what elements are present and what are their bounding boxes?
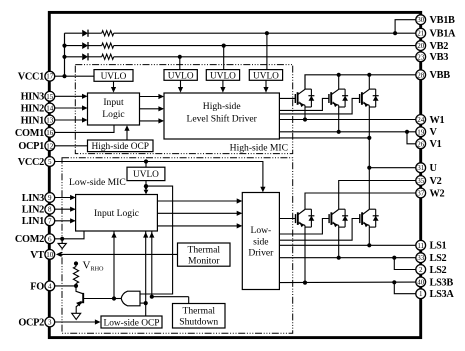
- junction VB1B/VB1A: [393, 31, 397, 35]
- wire LIN2 to Input Logic: [55, 208, 75, 210]
- pin 33 LS2: [416, 253, 447, 264]
- svg-text:Low-: Low-: [250, 225, 271, 236]
- wire HIN1 to Input Logic: [55, 119, 87, 121]
- pin 15 HIN3: [21, 91, 55, 102]
- svg-text:Driver: Driver: [248, 248, 274, 259]
- svg-text:12: 12: [46, 142, 54, 150]
- wire U line to pin: [369, 167, 416, 169]
- wire COM2 to Input Logic: [55, 231, 84, 239]
- junction thermal shutdown tee: [150, 295, 154, 299]
- svg-text:UVLO: UVLO: [210, 71, 236, 81]
- pin 26 V1: [416, 139, 442, 150]
- svg-text:VT: VT: [30, 250, 44, 261]
- wire Thermal Shutdown riser: [188, 297, 190, 304]
- wire LS3B sense line: [279, 281, 415, 284]
- block Thermal Monitor: [178, 243, 231, 266]
- wire gate drive Q1L: [279, 218, 295, 220]
- wire V2 line: [339, 181, 416, 210]
- transistor Q_FO (fault output): [76, 286, 114, 313]
- pin 24 W1: [416, 115, 445, 126]
- wire V sense line: [279, 131, 415, 133]
- junction LS3 branch: [392, 280, 396, 284]
- wire UVLO3 to driver: [222, 80, 224, 91]
- wire LIN1 to Input Logic: [55, 220, 75, 222]
- wire VB1A line to pin: [114, 32, 416, 34]
- wire VCC2 supply line: [55, 162, 263, 192]
- pin 19 V: [416, 127, 438, 138]
- wire LS2 to second pin: [394, 258, 416, 270]
- wire VBB rail: [305, 75, 416, 90]
- wire LS1 sense line: [279, 244, 415, 246]
- svg-text:VB1A: VB1A: [430, 29, 457, 40]
- node V_RHO: [74, 261, 78, 265]
- svg-text:37: 37: [417, 190, 425, 198]
- junction VB2/UVLO3 feed: [222, 44, 226, 48]
- svg-text:26: 26: [417, 140, 425, 148]
- wire Q1H emitter to W1: [304, 105, 306, 119]
- wire OCP2 to Low-side OCP: [55, 321, 96, 323]
- wire VCC2 into UVLO5: [145, 162, 147, 168]
- pin 20 VB2: [416, 41, 448, 52]
- svg-text:Shutdown: Shutdown: [179, 317, 218, 328]
- wire gate output: [114, 298, 121, 300]
- junction gate output/Q_FO base: [112, 296, 116, 300]
- pin 21 VB1A: [416, 28, 456, 39]
- svg-text:LS3B: LS3B: [430, 277, 454, 288]
- wire gate drive Q3L: [279, 219, 359, 241]
- svg-text:9: 9: [48, 194, 52, 202]
- wire HIN2 to Input Logic: [55, 107, 87, 109]
- bootstrap resistor R_VB1A: [102, 31, 114, 36]
- wire Q2L emitter to LS2: [338, 225, 340, 257]
- ground symbol at COM2: [61, 239, 63, 244]
- svg-text:19: 19: [417, 128, 425, 136]
- IC package outline: [49, 12, 420, 337]
- pin 9 LIN3: [22, 193, 55, 204]
- block low-side Input Logic: [76, 195, 158, 232]
- junction VCC2/UVLO5: [144, 159, 148, 163]
- wire thermal fault to Input Logic: [151, 231, 153, 297]
- wire Input Logic to Level Shift Driver: [140, 96, 164, 98]
- pin 28 VBB: [416, 70, 450, 81]
- pin 35 V2: [416, 176, 442, 187]
- svg-text:OCP1: OCP1: [18, 141, 44, 152]
- svg-text:Logic: Logic: [102, 109, 124, 120]
- junction LS2/Q2L emitter: [337, 256, 341, 260]
- pin 37 W2: [416, 188, 445, 199]
- svg-text:8: 8: [48, 206, 52, 214]
- svg-text:V2: V2: [430, 176, 442, 187]
- wire Input Logic to Level Shift Driver: [140, 108, 164, 110]
- svg-text:UVLO: UVLO: [168, 71, 194, 81]
- pin 1 LS3A: [416, 289, 455, 300]
- wire VB1A to UVLO4: [266, 33, 268, 69]
- Low-side MIC boundary box: [62, 158, 293, 333]
- svg-text:30: 30: [417, 16, 425, 24]
- bootstrap diode D_VB1A: [82, 30, 88, 37]
- svg-text:VCC1: VCC1: [18, 72, 44, 83]
- svg-text:Low-side OCP: Low-side OCP: [104, 318, 160, 328]
- bootstrap diode D_VB2: [82, 42, 88, 49]
- wire VB3 row anode: [65, 56, 83, 58]
- svg-text:Input Logic: Input Logic: [94, 208, 139, 219]
- block Thermal Shutdown: [173, 304, 226, 329]
- svg-text:Thermal: Thermal: [188, 244, 221, 255]
- svg-text:U: U: [430, 163, 438, 174]
- junction VB3/UVLO2 feed: [178, 55, 182, 59]
- pin 11 LS1: [416, 240, 447, 251]
- svg-text:2: 2: [419, 266, 423, 274]
- wire COM1 to Input Logic: [55, 125, 114, 132]
- svg-text:17: 17: [46, 73, 54, 81]
- svg-text:VB2: VB2: [430, 41, 449, 52]
- wire Q1L emitter to LS3: [304, 225, 306, 282]
- block High-side Level Shift Driver: [164, 93, 279, 139]
- svg-text:LS1: LS1: [430, 241, 447, 252]
- bootstrap resistor R_VB2: [102, 43, 114, 48]
- svg-text:High-side MIC: High-side MIC: [230, 143, 288, 154]
- wire: [88, 56, 102, 58]
- wire W2 line: [305, 193, 416, 209]
- wire VCC1 to UVLO1: [55, 75, 94, 77]
- block UVLO3 (VB2 domain): [206, 70, 239, 82]
- svg-text:VCC2: VCC2: [18, 157, 44, 168]
- block UVLO4 (VB1 domain): [249, 70, 282, 82]
- junction bus/VB3 row: [62, 55, 66, 59]
- pin 5 VCC2: [18, 157, 55, 168]
- wire VB2 to UVLO3: [223, 46, 225, 70]
- svg-text:V: V: [430, 127, 438, 138]
- wire gate drive Q3H: [279, 98, 359, 114]
- wire OCP fault to gate: [140, 302, 146, 304]
- wire LS3 to LS3A pin: [394, 282, 416, 293]
- svg-text:VB1B: VB1B: [430, 15, 456, 26]
- block UVLO1 (VCC1 domain): [94, 70, 133, 82]
- wire UVLO5 to Input Logic: [145, 181, 147, 194]
- High-side MIC boundary box: [75, 65, 292, 154]
- bootstrap resistor R_VB3: [102, 54, 114, 59]
- svg-text:side: side: [253, 236, 268, 247]
- wire W1 sense line: [279, 119, 415, 121]
- wire UVLO5 fault to gate: [140, 186, 173, 294]
- wire Q3H collector: [368, 75, 370, 90]
- block high-side Input Logic: [88, 93, 140, 125]
- svg-text:W2: W2: [430, 188, 445, 199]
- svg-text:LS2: LS2: [430, 253, 447, 264]
- wire VB1B to VB1A link: [395, 20, 416, 34]
- svg-text:20: 20: [417, 42, 425, 50]
- pin 4 FO: [30, 281, 54, 292]
- pin 12 OCP1: [18, 141, 54, 152]
- svg-text:HIN2: HIN2: [21, 103, 45, 114]
- bootstrap diode D_VB3: [82, 53, 88, 60]
- wire HIN3 to Input Logic: [55, 95, 87, 97]
- wire Q2H collector: [338, 75, 340, 90]
- junction LS2 branch: [392, 256, 396, 260]
- svg-text:11: 11: [417, 242, 424, 250]
- block Low-side Driver: [242, 193, 279, 290]
- junction VB1A/UVLO4 feed: [265, 31, 269, 35]
- svg-text:Input: Input: [103, 97, 124, 108]
- wire VB2 line to pin: [114, 45, 416, 47]
- svg-text:UVLO: UVLO: [253, 71, 279, 81]
- svg-text:COM1: COM1: [15, 128, 44, 139]
- junction FO/resistor/collector: [74, 284, 78, 288]
- svg-text:FO: FO: [30, 281, 44, 292]
- pin 6 COM2: [15, 234, 55, 245]
- svg-text:10: 10: [46, 251, 54, 259]
- pin 14 HIN2: [21, 103, 55, 114]
- junction OCP fault: [144, 301, 148, 305]
- svg-text:Thermal: Thermal: [183, 306, 216, 317]
- pin 3 OCP2: [18, 317, 54, 328]
- block UVLO2 (VB3 domain): [164, 70, 197, 82]
- svg-text:31: 31: [417, 164, 425, 172]
- svg-text:14: 14: [46, 105, 54, 113]
- transistor Q1H (high-side IGBT, W phase): [295, 89, 314, 107]
- wire VB1A row anode: [65, 32, 83, 34]
- junction VCC1/bootstrap bus: [62, 74, 66, 78]
- svg-text:Monitor: Monitor: [188, 255, 220, 266]
- svg-text:HIN3: HIN3: [21, 92, 45, 103]
- svg-text:Low-side MIC: Low-side MIC: [69, 177, 126, 188]
- wire High-side OCP to Input Logic: [126, 126, 128, 140]
- wire Thermal Monitor to VT: [61, 253, 178, 255]
- pin 23 VB3: [416, 52, 448, 63]
- wire V_RHO to resistor: [75, 264, 77, 267]
- wire gate drive Q2L: [279, 219, 329, 235]
- transistor Q1L (low-side IGBT, W phase): [296, 209, 315, 227]
- wire VB3 to UVLO2: [179, 57, 181, 70]
- svg-text:LIN2: LIN2: [22, 205, 44, 216]
- svg-text:3: 3: [48, 319, 52, 327]
- pin 7 LIN1: [22, 216, 55, 227]
- svg-text:OCP2: OCP2: [18, 317, 44, 328]
- junction bus/VB2 row: [62, 44, 66, 48]
- svg-text:35: 35: [417, 177, 425, 185]
- junction LS3/Q1L emitter: [303, 281, 307, 285]
- svg-text:LIN3: LIN3: [22, 193, 44, 204]
- svg-text:VB3: VB3: [430, 52, 449, 63]
- wire LS2 sense line: [279, 257, 415, 259]
- wire UVLO1 to Input Logic: [113, 81, 115, 91]
- svg-text:LS3A: LS3A: [430, 289, 455, 300]
- block High-side OCP: [88, 140, 154, 152]
- svg-text:LS2: LS2: [430, 265, 447, 276]
- wire Input Logic to Low-side Driver: [157, 225, 241, 227]
- pin 17 VCC1: [18, 71, 55, 82]
- svg-text:HIN1: HIN1: [21, 115, 45, 126]
- svg-text:28: 28: [417, 71, 425, 79]
- transistor Q3H (high-side IGBT, U phase): [360, 89, 379, 107]
- bootstrap supply bus from VCC1: [64, 33, 66, 76]
- svg-text:4: 4: [48, 282, 52, 290]
- transistor Q3L (low-side IGBT, U phase): [360, 209, 379, 227]
- wire Input Logic to Low-side Driver: [157, 212, 241, 214]
- wire gate drive Q1H: [279, 97, 295, 99]
- wire FO pin line: [55, 285, 76, 287]
- junction LS1/Q3L emitter: [367, 243, 371, 247]
- svg-text:W1: W1: [430, 115, 445, 126]
- svg-text:24: 24: [417, 116, 425, 124]
- svg-text:13: 13: [46, 117, 54, 125]
- junction W1/Q1H emitter: [303, 117, 307, 121]
- svg-text:VBB: VBB: [430, 70, 451, 81]
- svg-text:COM2: COM2: [15, 234, 44, 245]
- svg-text:5: 5: [48, 158, 52, 166]
- junction V/Q2H emitter: [337, 130, 341, 134]
- wire Q3H emitter / U phase column: [368, 105, 370, 209]
- svg-text:15: 15: [46, 93, 54, 101]
- ground symbol at Q_FO emitter: [72, 313, 81, 319]
- junction U sense/phase column: [367, 136, 371, 140]
- svg-text:High-side OCP: High-side OCP: [91, 142, 149, 152]
- svg-text:16: 16: [46, 129, 54, 137]
- svg-text:LIN1: LIN1: [22, 216, 44, 227]
- wire OCP1 to High-side OCP: [55, 145, 88, 147]
- svg-text:1: 1: [419, 290, 423, 298]
- pin 8 LIN2: [22, 204, 55, 215]
- svg-text:Level Shift Driver: Level Shift Driver: [187, 114, 258, 125]
- pin 16 COM1: [15, 127, 55, 138]
- junction UVLO5 output: [144, 184, 148, 188]
- svg-text:V1: V1: [430, 139, 442, 150]
- wire: [88, 32, 102, 34]
- transistor Q2L (low-side IGBT, V phase): [329, 209, 348, 227]
- svg-text:40: 40: [417, 278, 425, 286]
- pin 40 LS3B: [416, 277, 454, 288]
- svg-text:23: 23: [417, 53, 425, 61]
- wire VB2 row anode: [65, 45, 83, 47]
- block UVLO5 (VCC2 domain): [127, 167, 165, 180]
- resistor R_FO pull-up: [73, 267, 78, 284]
- junction U line/phase column: [367, 166, 371, 170]
- wire Input Logic to Low-side Driver: [157, 200, 241, 202]
- pin 10 VT: [30, 250, 54, 261]
- wire Input Logic to Level Shift Driver: [140, 120, 164, 122]
- wire UVLO2 to driver: [180, 80, 182, 91]
- junction COM2/substrate: [60, 237, 64, 241]
- svg-text:UVLO: UVLO: [133, 170, 159, 180]
- transistor Q2H (high-side IGBT, V phase): [329, 89, 348, 107]
- wire V to V1 pin: [407, 132, 416, 144]
- svg-text:7: 7: [48, 217, 52, 225]
- junction V/V1 branch: [405, 130, 409, 134]
- svg-text:33: 33: [417, 254, 425, 262]
- wire Q2H emitter to V: [338, 105, 340, 132]
- wire VB3 line to pin: [114, 56, 416, 58]
- pin 30 VB1B: [416, 15, 455, 26]
- wire fault to Input Logic: [113, 231, 115, 299]
- wire UVLO4 to driver: [265, 80, 267, 91]
- svg-text:6: 6: [48, 235, 52, 243]
- svg-text:High-side: High-side: [203, 101, 241, 112]
- arrowhead into VT pin: [56, 252, 62, 257]
- wire: [88, 45, 102, 47]
- junction VBB rail / Q3H collector: [367, 73, 371, 77]
- block Low-side OCP: [101, 316, 162, 328]
- wire LIN3 to Input Logic: [55, 197, 75, 199]
- pin 13 HIN1: [21, 115, 55, 126]
- wire U sense stub: [279, 137, 369, 139]
- svg-text:21: 21: [417, 30, 425, 38]
- pin 31 U: [416, 163, 438, 174]
- svg-text:UVLO: UVLO: [101, 72, 127, 82]
- wire Q3L emitter to LS1: [368, 225, 370, 245]
- junction VBB rail / Q2H collector: [337, 73, 341, 77]
- wire Thermal Shutdown to gate: [152, 296, 189, 298]
- wire Low-side OCP to Input Logic: [145, 231, 147, 316]
- pin 2 LS2: [416, 265, 447, 276]
- wire gate drive Q2H: [279, 98, 329, 110]
- fault logic gate: [121, 291, 140, 306]
